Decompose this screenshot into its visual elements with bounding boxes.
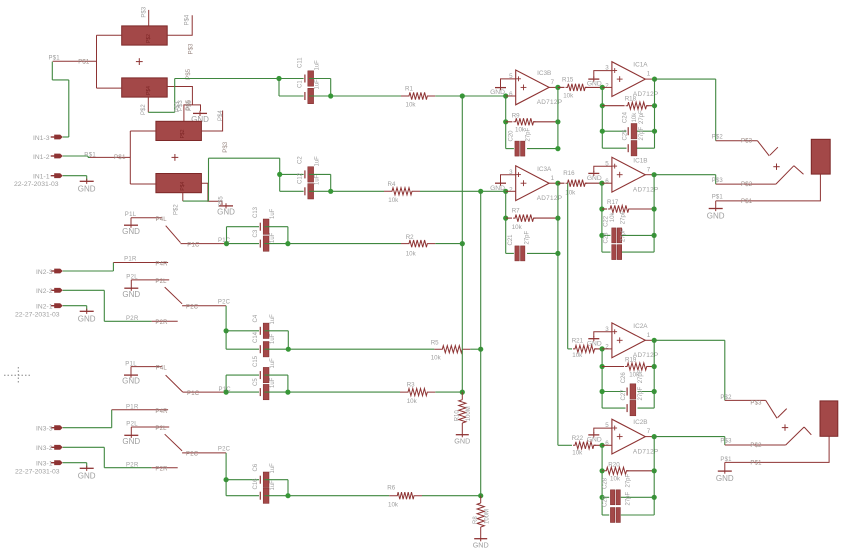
wire pot P1 wiper net	[148, 79, 279, 113]
capacitor C3	[260, 236, 269, 251]
IC2A pin3 wire to gnd	[594, 332, 612, 338]
svg-text:IC2A: IC2A	[633, 323, 648, 330]
junction fb1a b	[652, 103, 657, 108]
svg-text:IC3B: IC3B	[537, 70, 551, 77]
svg-text:GND: GND	[716, 474, 734, 483]
label P2C a	[218, 300, 231, 306]
value 1uF rot b	[315, 79, 321, 90]
capacitor C26	[627, 384, 636, 399]
connector J3 pin IN3-2	[36, 445, 63, 452]
jack S2 pin P4R wire	[113, 262, 168, 264]
wire IN2-2 to P2R	[63, 290, 152, 321]
jack S1L pin P1C wire	[181, 243, 225, 245]
svg-text:P2C: P2C	[218, 447, 231, 453]
svg-text:R1: R1	[405, 85, 413, 92]
junction fb3b a	[503, 119, 508, 124]
wire C1 to R1	[309, 95, 401, 97]
svg-text:1uF: 1uF	[270, 208, 276, 219]
ground GND IC2A	[587, 336, 602, 347]
junction mix net1 b	[460, 241, 465, 246]
label R19	[625, 357, 637, 364]
label P1R a	[124, 256, 137, 262]
pin label P$5b rot	[187, 100, 193, 111]
wire C25 row	[602, 147, 654, 149]
svg-text:GND: GND	[122, 290, 140, 299]
wire mix net1 rail	[461, 96, 463, 392]
svg-text:P$4: P$4	[180, 181, 186, 190]
ground GND R8	[473, 533, 489, 550]
resistor R2	[401, 240, 435, 247]
label C20 rot	[509, 130, 515, 142]
value 10k R19	[629, 371, 640, 378]
wire P2C to C6	[225, 453, 227, 480]
svg-text:100M: 100M	[484, 509, 490, 524]
svg-text:27pF: 27pF	[526, 127, 532, 141]
junction C5 rail	[285, 390, 290, 395]
svg-text:GND: GND	[78, 185, 96, 194]
svg-text:AD712P: AD712P	[537, 99, 563, 106]
svg-text:P2R: P2R	[155, 467, 168, 473]
IC3B output wire	[549, 86, 558, 88]
jack S3 pin P1C wire	[183, 391, 225, 393]
op-amp IC3B	[509, 70, 562, 106]
wire IC3A fb left rail	[505, 191, 507, 253]
svg-text:P1R: P1R	[126, 404, 139, 410]
svg-text:P$4: P$4	[218, 110, 224, 121]
label C27 rot	[621, 389, 627, 401]
label C29 rot	[603, 495, 609, 507]
svg-text:C22: C22	[604, 215, 610, 227]
label P1L	[125, 212, 137, 218]
value 100M rot b	[484, 509, 490, 524]
jack X1 switch lever a	[757, 141, 778, 156]
svg-text:6: 6	[509, 91, 513, 98]
svg-text:C3: C3	[253, 229, 259, 237]
svg-text:27pF: 27pF	[639, 126, 645, 140]
pin label P$4 rot	[184, 14, 190, 25]
svg-text:27pF: 27pF	[626, 491, 632, 505]
svg-text:IN1-3: IN1-3	[33, 135, 50, 142]
junction P1C a	[224, 241, 229, 246]
junction fb2a a	[600, 364, 605, 369]
svg-text:P4R: P4R	[155, 409, 168, 415]
IC3B pin5 wire to gnd	[501, 79, 516, 86]
svg-text:1uF: 1uF	[270, 333, 276, 344]
junction C3 rail	[285, 241, 290, 246]
resistor R6	[389, 492, 422, 499]
IC1A output wire	[645, 78, 654, 80]
wire IC3A out long rail	[558, 183, 572, 445]
value 1uF rot g	[270, 314, 276, 325]
svg-text:P$3: P$3	[741, 139, 753, 145]
pot P1 left bus wire	[97, 35, 122, 88]
svg-text:C6: C6	[253, 463, 259, 471]
svg-text:1uF: 1uF	[270, 377, 276, 388]
resistor R17	[602, 205, 654, 212]
pin name P2L	[155, 279, 167, 285]
svg-text:1uF: 1uF	[270, 358, 276, 369]
svg-text:10k: 10k	[572, 450, 583, 457]
value 10k R3	[407, 398, 418, 405]
svg-text:C4: C4	[253, 314, 259, 322]
svg-text:P2L: P2L	[126, 274, 138, 280]
pot P2 pin P$2 wire	[182, 193, 184, 201]
label R9	[512, 112, 520, 119]
wire P2C to C4	[225, 306, 227, 331]
svg-text:7: 7	[551, 79, 555, 86]
label R5	[431, 340, 439, 347]
label P$1 X1	[712, 195, 724, 201]
IC2B output wire	[645, 436, 654, 438]
svg-text:27pF: 27pF	[638, 369, 644, 383]
svg-text:P$3: P$3	[720, 438, 732, 444]
svg-text:P$1: P$1	[712, 195, 724, 201]
ground GND R10	[454, 430, 470, 446]
pin name P4L b	[156, 366, 168, 372]
wire IN2-1 to ground	[63, 306, 87, 311]
svg-text:10k: 10k	[407, 398, 418, 405]
junction fb2b a	[600, 468, 605, 473]
junction mix net2 a	[478, 189, 483, 194]
resistor R5	[434, 346, 470, 353]
op-amp IC2A	[605, 323, 658, 359]
resistor R16	[558, 180, 602, 187]
label C2 rot	[298, 156, 304, 164]
label C6 rot	[253, 463, 259, 471]
value 10k R16	[565, 189, 576, 196]
label C13 rot	[253, 206, 259, 218]
svg-text:P$3: P$3	[175, 101, 181, 112]
svg-text:IN3-2: IN3-2	[36, 445, 53, 452]
wire C6 right rail	[264, 480, 288, 496]
svg-text:C2: C2	[298, 156, 304, 164]
svg-text:27pF: 27pF	[621, 228, 627, 242]
jack S2 pin P2L wire	[131, 279, 169, 281]
capacitor C1	[305, 88, 314, 103]
value 1uF rot i	[270, 358, 276, 369]
resistor R7	[506, 215, 558, 222]
pot P1 pin P$1 wire	[53, 60, 97, 62]
svg-text:IN2-3: IN2-3	[36, 269, 53, 276]
svg-text:1: 1	[647, 71, 651, 78]
svg-text:R7: R7	[512, 207, 520, 214]
wire C26 row	[602, 391, 654, 393]
svg-text:R3: R3	[407, 382, 415, 389]
ground GND S4	[122, 427, 140, 446]
svg-text:22-27-2031-03: 22-27-2031-03	[15, 469, 60, 476]
wire IN1-3 to pot P1	[52, 62, 69, 137]
capacitor C29	[610, 508, 620, 523]
value 10k R9	[515, 127, 526, 134]
svg-text:GND: GND	[587, 340, 602, 347]
ground GND IC1A	[587, 77, 602, 88]
svg-text:C12: C12	[298, 172, 304, 184]
svg-text:P2C: P2C	[218, 300, 231, 306]
junction IC1A out	[652, 77, 657, 82]
jack X2 pin P$2 wire	[725, 444, 786, 446]
pot P2 pin P$3top wire	[184, 105, 201, 121]
capacitor C2	[305, 167, 314, 182]
svg-text:R17: R17	[607, 199, 619, 206]
svg-text:R18: R18	[625, 96, 637, 103]
jack S1L pin P4L wire	[131, 217, 162, 219]
ground GND S1L	[122, 218, 140, 236]
wire IC2A out to jack	[654, 340, 725, 400]
potentiometer P2 element A	[156, 121, 202, 140]
svg-text:IC2B: IC2B	[633, 419, 647, 426]
label R16	[563, 170, 575, 177]
jack S1L switch lever	[166, 226, 181, 243]
potentiometer P1 element B	[122, 78, 168, 97]
connector J2 pin IN2-2	[36, 288, 63, 295]
svg-text:2: 2	[605, 83, 609, 90]
wire R2 to net1	[435, 243, 462, 245]
svg-text:P4L: P4L	[156, 217, 168, 223]
svg-text:P2R: P2R	[155, 320, 168, 326]
ground GND IC3B	[490, 85, 506, 96]
IC1B output wire	[645, 174, 654, 176]
value 10k R5	[431, 354, 442, 361]
svg-text:C26: C26	[621, 372, 627, 384]
svg-text:P4R: P4R	[155, 262, 168, 268]
svg-text:P1R: P1R	[124, 256, 137, 262]
svg-text:C11: C11	[298, 57, 304, 68]
wire C22 row	[602, 234, 654, 236]
resistor R9	[506, 118, 558, 125]
junction P1C b	[224, 390, 229, 395]
value 10k R6	[388, 501, 399, 508]
svg-text:10k: 10k	[610, 212, 616, 223]
wire C15 right rail	[264, 375, 288, 392]
svg-text:10k: 10k	[565, 189, 576, 196]
value 27pF rot j	[626, 491, 632, 505]
pin name P4L	[156, 217, 168, 223]
svg-text:10k: 10k	[572, 352, 583, 359]
junction C1 rail	[328, 93, 333, 98]
value 10k R15	[563, 93, 574, 100]
junction IC1B out	[652, 172, 657, 177]
wire IN3-1 to ground	[63, 463, 87, 468]
svg-text:1uF: 1uF	[270, 463, 276, 474]
jack S2 pin P2C wire	[182, 305, 226, 307]
junction IC2B out	[652, 434, 657, 439]
svg-text:C14: C14	[253, 331, 259, 343]
jack S2 switch lever	[165, 287, 182, 304]
ground GND J1	[78, 179, 96, 194]
capacitor C16	[260, 488, 269, 503]
pot P2 pin P$3b wire	[201, 183, 222, 205]
jack S4 pin P4R wire	[112, 409, 168, 411]
ground GND J2	[78, 309, 96, 324]
jack X1 pin P$2 wire	[716, 183, 776, 185]
jack X1 switch lever b	[776, 166, 804, 184]
svg-text:1uF: 1uF	[315, 156, 321, 167]
svg-text:R21: R21	[572, 338, 584, 345]
pot P1 pin P$3 top wire	[148, 10, 150, 26]
label C12 rot	[298, 172, 304, 184]
svg-text:100M: 100M	[466, 406, 472, 421]
value 10k R7	[512, 224, 523, 231]
op-amp IC1B	[605, 157, 658, 193]
pin label P$3 rot	[142, 6, 148, 17]
wire pot P2 wiper net	[183, 158, 280, 201]
svg-text:P$4: P$4	[146, 86, 152, 95]
pin name P$3 of P2 rot	[222, 141, 229, 153]
svg-text:P2L: P2L	[155, 279, 167, 285]
wire IN3-3 to P4R	[63, 410, 112, 428]
svg-text:GND: GND	[78, 472, 96, 481]
svg-text:R9: R9	[512, 112, 520, 119]
pin label P$5b of P2 rot	[219, 196, 225, 207]
svg-text:7: 7	[647, 428, 651, 435]
junction fb3b c	[555, 146, 560, 151]
wire R3 to net1	[435, 391, 462, 393]
svg-text:IN2-2: IN2-2	[36, 288, 53, 295]
value 1uF rot e	[270, 208, 276, 219]
svg-text:C27: C27	[621, 389, 627, 401]
svg-text:10k: 10k	[632, 112, 638, 123]
wire IC2A fb left rail	[601, 349, 603, 408]
value 10k R17 rot	[610, 212, 616, 223]
pin name P1C a	[187, 242, 200, 248]
label R6	[387, 485, 395, 492]
resistor R8 vertical	[477, 496, 484, 533]
pin name P2C a	[186, 305, 199, 311]
wire IC2B fb left rail	[601, 445, 603, 515]
svg-text:27pF: 27pF	[525, 230, 531, 244]
wire mix net2 rail	[480, 191, 482, 495]
label C16 rot	[253, 478, 259, 490]
wire IN1-1 to ground	[63, 176, 87, 181]
junction fb2a c	[600, 389, 605, 394]
wire IN2-3 to P4R	[63, 263, 114, 272]
capacitor C6	[260, 472, 269, 487]
junction IC3A out	[555, 181, 560, 186]
jack S4 pin P2L wire	[131, 426, 169, 428]
jack X2 body	[820, 401, 838, 436]
svg-text:IN1-2: IN1-2	[33, 154, 50, 161]
junction fb2b b	[652, 468, 657, 473]
ground GND S3	[122, 367, 140, 386]
value 1uF rot l	[270, 480, 276, 491]
connector J3 value	[15, 469, 60, 476]
pot P1 pin P$3b to gnd wire	[167, 87, 192, 105]
junction mix net2 c	[478, 493, 483, 498]
IC2B pin6 wire	[602, 444, 612, 446]
value 27pF rot f	[621, 228, 627, 242]
svg-text:P4L: P4L	[156, 366, 168, 372]
resistor R20	[602, 467, 654, 474]
svg-text:GND: GND	[122, 377, 140, 386]
junction C4 in	[224, 328, 229, 333]
value 1uF rot c	[315, 156, 321, 167]
value 10k R22	[572, 450, 583, 457]
pin name P$3 X2	[750, 400, 762, 406]
label C5 rot	[253, 378, 259, 386]
svg-text:R15: R15	[562, 76, 574, 83]
wire IC1B fb right rail	[653, 175, 655, 252]
svg-text:C29: C29	[603, 495, 609, 507]
junction IC3B out	[555, 85, 560, 90]
svg-text:R22: R22	[572, 435, 584, 442]
jack X1 body	[811, 139, 830, 174]
svg-text:P$2: P$2	[720, 395, 732, 401]
junction IC2A out	[652, 338, 657, 343]
wire R1 to IC3B	[435, 95, 505, 97]
junction fb3b b	[555, 119, 560, 124]
svg-text:22-27-2031-03: 22-27-2031-03	[14, 181, 59, 188]
svg-text:1: 1	[647, 332, 651, 339]
ground GND IC3A	[490, 181, 506, 192]
label R17	[607, 199, 619, 206]
label R1	[405, 85, 413, 92]
junction fb2b d	[652, 495, 657, 500]
ground GND pots shared	[191, 111, 209, 124]
wire P1C to C15/C5	[226, 375, 259, 392]
IC3A output wire	[549, 182, 558, 184]
junction fb1b d	[652, 233, 657, 238]
svg-text:P1L: P1L	[125, 361, 137, 367]
wire IC2B fb right rail	[653, 437, 655, 515]
connector J3 pin IN3-1	[36, 460, 63, 467]
svg-text:10k: 10k	[388, 501, 399, 508]
label R8 rot	[473, 516, 479, 524]
junction C16 rail	[285, 493, 290, 498]
capacitor C27	[627, 400, 636, 415]
svg-text:P$2: P$2	[750, 443, 762, 449]
IC2A pin2 wire	[602, 348, 612, 350]
svg-text:IN1-1: IN1-1	[33, 174, 50, 181]
svg-text:P2L: P2L	[155, 426, 167, 432]
op-amp IC2B	[605, 419, 658, 455]
wire net N1 down leg	[279, 79, 304, 97]
svg-text:GND: GND	[122, 437, 140, 446]
wire net N2 bottom to C12	[280, 190, 304, 192]
svg-text:P2R: P2R	[126, 462, 139, 468]
label P2L b	[126, 421, 138, 427]
svg-text:AD712P: AD712P	[633, 187, 659, 194]
pin name P1C b	[187, 391, 200, 397]
pin name P$3 rot	[188, 43, 195, 55]
wire C21 row	[506, 252, 558, 254]
junction N1	[276, 76, 281, 81]
svg-text:AD712P: AD712P	[537, 195, 563, 202]
junction C6 in	[224, 477, 229, 482]
jack S4 pin P2C wire	[182, 452, 226, 454]
junction IC3A in	[503, 189, 508, 194]
pin name P$1 of P2	[114, 155, 126, 161]
value 1uF rot d	[315, 174, 321, 185]
junction fb3a c	[555, 251, 560, 256]
resistor R1	[401, 92, 435, 99]
pin name P2R	[155, 320, 168, 326]
wire IC3B fb right rail	[557, 87, 559, 148]
svg-text:1uF: 1uF	[315, 60, 321, 71]
junction fb1b a	[599, 206, 604, 211]
sheet origin crosshair	[4, 367, 32, 384]
wire C24 row	[602, 130, 654, 132]
label P1R b	[126, 404, 139, 410]
svg-text:P$1: P$1	[78, 60, 90, 66]
pot P2 left bus wire	[130, 131, 156, 184]
pin label P$2 of P2 rot	[174, 204, 180, 215]
svg-text:R8: R8	[473, 516, 479, 524]
svg-text:1: 1	[551, 175, 555, 182]
svg-text:R19: R19	[625, 357, 637, 364]
label C25 rot	[622, 129, 628, 141]
junction fb1a d	[652, 129, 657, 134]
svg-text:IN3-3: IN3-3	[36, 426, 53, 433]
